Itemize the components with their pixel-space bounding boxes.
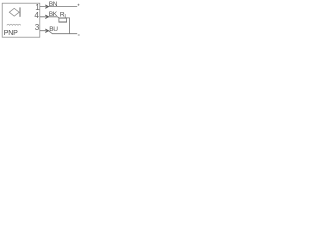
proximity sensor diamond symbol (9, 8, 19, 16)
load resistor box (59, 18, 67, 22)
svg-text:BN: BN (49, 1, 58, 8)
svg-text:3: 3 (35, 23, 40, 32)
wire BN (40, 6, 77, 8)
arrow BK (45, 15, 48, 18)
svg-text:BU: BU (49, 26, 58, 33)
svg-text:4: 4 (34, 11, 39, 20)
minus terminal (78, 34, 80, 36)
svg-text:PNP: PNP (4, 30, 18, 37)
arrow BU (45, 29, 48, 32)
sensor body box (2, 3, 40, 37)
svg-text:L: L (65, 14, 68, 20)
arrow BN (45, 5, 48, 8)
plus terminal (78, 4, 80, 6)
svg-text:BK: BK (49, 11, 58, 18)
sensing face bar (19, 7, 21, 16)
wire BU (40, 31, 77, 34)
oscillation squiggle (7, 24, 21, 25)
wire BK with jog to load (40, 17, 70, 34)
